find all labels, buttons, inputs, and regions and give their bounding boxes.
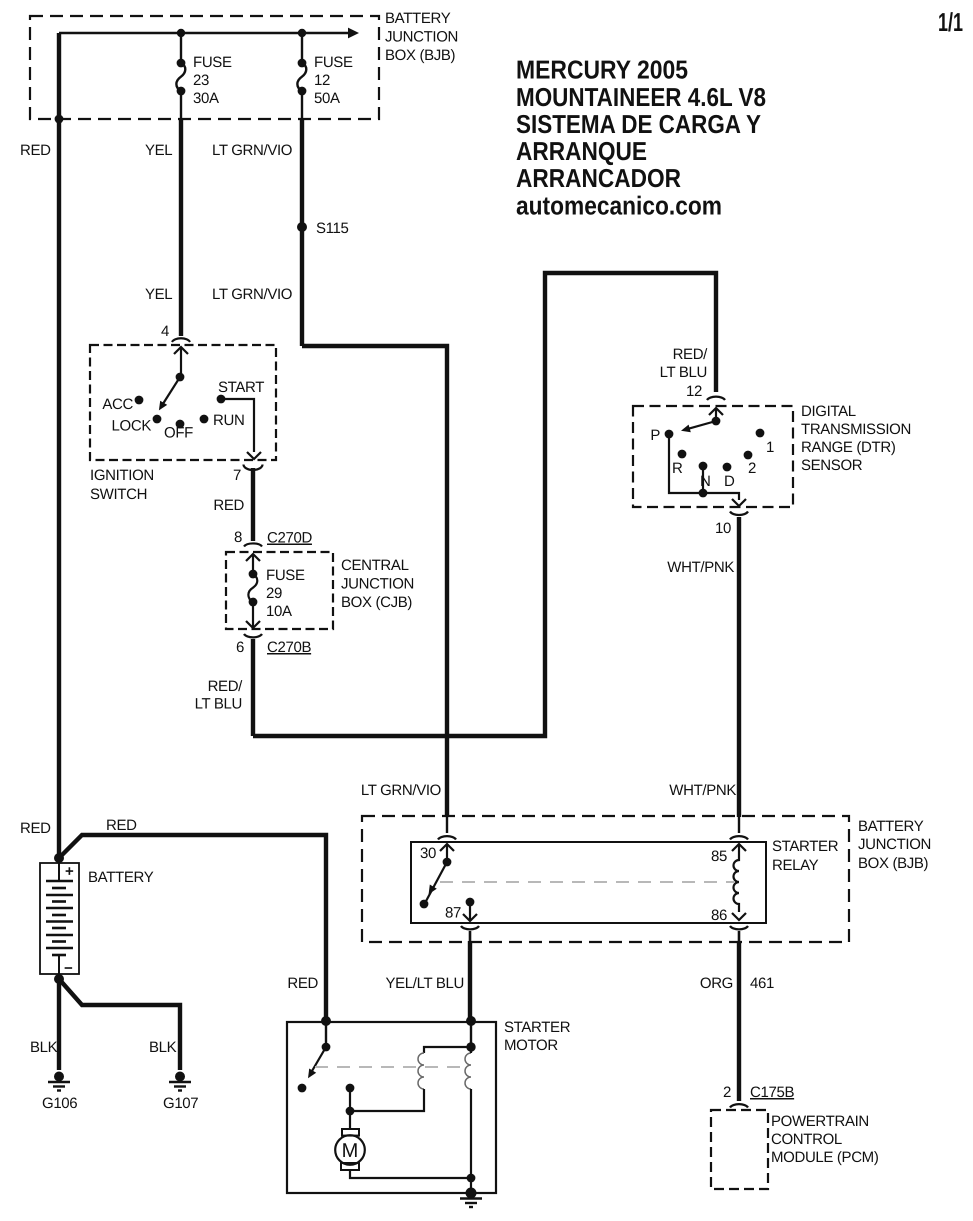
contact D [723,463,732,472]
svg-text:IGNITION: IGNITION [90,467,154,484]
svg-text:S115: S115 [316,220,349,237]
wire: WHT/PNK from DTR to relay [737,517,741,817]
svg-text:29: 29 [266,585,282,602]
wire: ORG 461 relay to PCM [738,931,741,943]
hold-in winding coil [418,1053,424,1089]
svg-text:85: 85 [711,848,727,865]
svg-text:1/1: 1/1 [938,7,963,37]
wire: CJB fuse top lead [252,554,254,573]
svg-text:JUNCTION: JUNCTION [385,29,458,46]
node: motor return junction [467,1174,476,1183]
fuse 12 50A [298,59,307,68]
svg-text:50A: 50A [314,90,340,107]
wire: BJB bus with arrow [59,32,349,35]
starter motor solid box [287,1022,496,1193]
svg-text:JUNCTION: JUNCTION [858,836,931,853]
svg-text:23: 23 [193,72,209,89]
powertrain control module PCM dashed box [711,1110,768,1189]
svg-text:SWITCH: SWITCH [90,486,147,503]
svg-text:START: START [218,379,264,396]
wire: fuse 12 bottom lead [301,91,303,119]
wire: RED battery feed (left vertical) [57,33,61,859]
svg-text:87: 87 [445,905,461,922]
battery junction box BJB (top) dashed box [30,16,379,119]
ground G106 [54,1072,64,1082]
svg-text:ACC: ACC [102,396,133,413]
connector relay pin 87 [461,926,479,929]
wire: into starter windings [470,1021,472,1047]
svg-text:D: D [724,473,735,490]
svg-text:−: − [64,960,73,977]
svg-text:10A: 10A [266,603,292,620]
svg-text:FUSE: FUSE [314,54,353,71]
wire: pin12 to DTR pivot [715,408,717,421]
connector relay pin 86 [730,926,748,929]
svg-text:C270D: C270D [267,530,312,547]
svg-text:ARRANQUE: ARRANQUE [516,136,647,166]
svg-text:10: 10 [715,520,731,537]
motor M [342,1129,359,1136]
svg-text:FUSE: FUSE [266,567,305,584]
wire: fuse 23 top lead [180,33,182,62]
svg-text:ARRANCADOR: ARRANCADOR [516,163,681,193]
svg-text:CENTRAL: CENTRAL [341,557,409,574]
contact RUN [200,415,209,424]
svg-text:LT GRN/VIO: LT GRN/VIO [212,142,292,159]
fuse 29 10A [249,570,258,579]
svg-text:30A: 30A [193,90,219,107]
connector pin 6 C270B [244,634,262,637]
svg-text:C175B: C175B [750,1084,794,1101]
svg-text:MOUNTAINEER 4.6L V8: MOUNTAINEER 4.6L V8 [516,82,766,112]
svg-text:MODULE (PCM): MODULE (PCM) [771,1149,879,1166]
svg-text:CONTROL: CONTROL [771,1131,842,1148]
wire: LT GRN/VIO horizontal to relay column [302,346,447,817]
wire: RED jumper battery to starter motor [59,835,326,1020]
node: motor bus junction [346,1107,355,1116]
svg-text:JUNCTION: JUNCTION [341,576,414,593]
contact OFF [176,420,185,429]
solenoid pivot [322,1043,331,1052]
wire: solenoid input [325,1021,327,1047]
svg-text:BOX (CJB): BOX (CJB) [341,594,412,611]
svg-text:STARTER: STARTER [504,1019,571,1036]
contact R [678,450,687,459]
contact P [665,430,674,439]
DTR pivot [712,417,721,426]
svg-text:P: P [650,427,660,444]
wire: pin4 to switch pivot [180,347,182,377]
gray dashed line in relay [440,881,734,883]
svg-text:RELAY: RELAY [772,857,819,874]
node: starter ground at box edge [466,1188,477,1199]
contact LOCK [153,415,162,424]
contact START [217,395,226,404]
relay coil pin 85 [730,836,748,839]
svg-text:BLK: BLK [30,1039,58,1056]
node: bus junction at fuse 23 [177,29,185,37]
svg-text:6: 6 [236,639,244,656]
svg-text:461: 461 [750,975,774,992]
svg-text:1: 1 [766,439,774,456]
wire: BLK to G106 [57,979,61,1070]
svg-text:RUN: RUN [213,412,244,429]
svg-text:OFF: OFF [164,425,193,442]
wire: RED/LT BLU across and up to DTR [253,273,716,736]
svg-text:8: 8 [234,529,242,546]
svg-text:12: 12 [686,383,702,400]
svg-text:C270B: C270B [267,639,311,656]
wire: bus to motor [349,1111,351,1130]
relay coil [734,844,739,912]
contact 2 [744,451,753,460]
splice S115 [297,222,307,232]
node: battery negative junction [54,974,64,984]
svg-text:2: 2 [748,460,756,477]
node: N junction [699,489,708,498]
node: RED at starter box edge [321,1016,331,1026]
svg-text:G106: G106 [42,1095,77,1112]
svg-text:YEL: YEL [145,286,172,303]
svg-text:LT BLU: LT BLU [660,364,707,381]
svg-text:STARTER: STARTER [772,838,839,855]
svg-text:G107: G107 [163,1095,198,1112]
wire: fuse 12 top lead [301,33,303,62]
contact 1 [756,429,765,438]
svg-text:RED: RED [287,975,318,992]
svg-text:DIGITAL: DIGITAL [801,403,856,420]
fuse 23 30A [177,59,186,68]
wire: hold-in winding to motor bus [350,1089,424,1111]
starter relay solid box [411,842,766,923]
svg-text:7: 7 [233,467,241,484]
svg-text:LT BLU: LT BLU [195,696,242,713]
svg-text:N: N [700,473,710,490]
solenoid contact right [346,1084,355,1093]
svg-text:ORG: ORG [700,975,733,992]
ignition switch lever (to LOCK) [164,377,181,403]
svg-text:BLK: BLK [149,1039,177,1056]
svg-text:BOX (BJB): BOX (BJB) [385,47,456,64]
relay terminal 87 [466,898,475,907]
wire: RED/LT BLU from CJB down [251,639,255,736]
relay lever [425,862,447,903]
solenoid lever [312,1047,326,1071]
wire: motor return [350,1170,471,1178]
ignition switch dashed box [90,345,276,460]
wire: 87 to box edge [469,902,471,920]
svg-text:LOCK: LOCK [112,418,152,435]
svg-text:POWERTRAIN: POWERTRAIN [771,1113,869,1130]
svg-text:MOTOR: MOTOR [504,1037,558,1054]
svg-text:LT GRN/VIO: LT GRN/VIO [212,286,292,303]
svg-text:RED: RED [213,497,244,514]
battery junction box BJB (relay) dashed box [362,816,849,942]
svg-text:RED: RED [106,817,137,834]
contact ACC [135,396,144,405]
connector pin 10 [730,512,748,516]
wire: LT GRN/VIO to S115 [300,119,304,346]
central junction box CJB dashed box [226,552,333,629]
relay contact (lower) [420,900,429,909]
wire: START to pin 7 [221,399,254,452]
ignition switch pivot [176,373,185,382]
contact N [699,462,708,471]
wire: RED ignition to CJB [251,468,255,541]
svg-text:LT GRN/VIO: LT GRN/VIO [361,782,441,799]
svg-text:2: 2 [723,1084,731,1101]
DTR lever to P [689,421,716,429]
svg-text:YEL/LT BLU: YEL/LT BLU [386,975,465,992]
svg-text:BATTERY: BATTERY [385,10,451,27]
relay contact pivot [443,858,452,867]
wire: fuse 23 bottom lead [180,91,182,119]
svg-text:FUSE: FUSE [193,54,232,71]
wire: YEL ignition feed [179,119,183,336]
ground G107 [175,1072,185,1082]
wire: BLK jumper to G107 [59,979,180,1070]
svg-text:WHT/PNK: WHT/PNK [667,559,734,576]
svg-text:12: 12 [314,72,330,89]
wire: N to P bus [702,466,704,493]
wire: pin30 to relay contact [446,844,448,862]
svg-text:RED/: RED/ [673,346,709,363]
battery [40,863,79,974]
wire: YEL/LT BLU relay to starter [469,931,472,943]
svg-text:M: M [342,1140,359,1162]
svg-text:BATTERY: BATTERY [858,818,924,835]
wire: to hold-in winding [424,1047,471,1053]
pull-in winding coil [465,1053,471,1089]
solenoid contact left [298,1084,307,1093]
starter ground symbol [460,1197,482,1199]
svg-text:R: R [672,460,683,477]
svg-text:SENSOR: SENSOR [801,457,863,474]
svg-text:86: 86 [711,907,727,924]
wire: contact to motor bus [349,1088,351,1111]
svg-text:BATTERY: BATTERY [88,869,154,886]
svg-text:YEL: YEL [145,142,172,159]
svg-text:RED: RED [20,142,51,159]
connector relay pin 30 [438,836,456,839]
svg-text:automecanico.com: automecanico.com [516,191,722,221]
node: YEL/LT BLU at starter box edge [466,1016,476,1026]
wire: CJB fuse bottom lead [252,602,254,628]
connector pin 7 [244,465,263,471]
node: bus junction at fuse 12 [298,29,306,37]
svg-text:RED: RED [20,820,51,837]
svg-text:30: 30 [420,845,436,862]
svg-text:RED/: RED/ [208,678,244,695]
svg-text:MERCURY 2005: MERCURY 2005 [516,55,688,85]
svg-text:RANGE (DTR): RANGE (DTR) [801,439,896,456]
node: winding junction [466,1042,475,1051]
gray dashed line in starter motor [315,1066,467,1068]
svg-text:TRANSMISSION: TRANSMISSION [801,421,911,438]
node: RED wire at BJB edge [55,115,64,124]
node: battery positive junction [54,853,64,863]
svg-text:SISTEMA DE CARGA Y: SISTEMA DE CARGA Y [516,109,761,139]
svg-text:4: 4 [161,323,169,340]
svg-text:+: + [65,863,74,880]
svg-text:WHT/PNK: WHT/PNK [669,782,736,799]
svg-text:BOX (BJB): BOX (BJB) [858,855,929,872]
wire: P to pin 10 [669,434,739,500]
wire: pull-in winding to ground bus [470,1047,472,1193]
DTR sensor dashed box [633,406,793,507]
